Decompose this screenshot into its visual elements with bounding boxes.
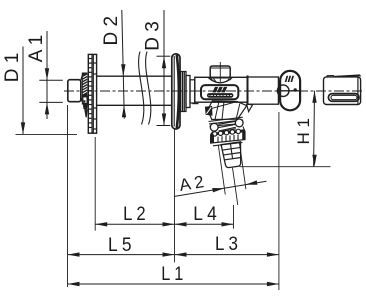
dimension D1 xyxy=(22,47,24,135)
knurled nut top band xyxy=(211,131,245,135)
outlet collar band xyxy=(218,121,236,131)
ext line D1 bottom xyxy=(16,133,78,135)
outlet funnel xyxy=(208,101,247,120)
ext line outlet axis xyxy=(233,205,235,229)
dimension L4 xyxy=(175,223,234,225)
ext line right end xyxy=(278,112,280,290)
hose nipple xyxy=(221,142,244,168)
svg-text:L 5: L 5 xyxy=(108,234,132,256)
outlet ribbed neck xyxy=(209,117,244,126)
svg-text:D 3: D 3 xyxy=(143,21,164,51)
outlet right wing xyxy=(247,104,253,111)
outlet collar ball right xyxy=(235,119,243,127)
dimension extension lines vertical xyxy=(68,105,279,290)
handle pin dot xyxy=(294,88,297,91)
bonnet cap xyxy=(210,66,230,78)
key top bevel xyxy=(327,75,360,77)
dimension L3 xyxy=(175,254,279,256)
wall rosette xyxy=(172,54,180,129)
inlet thread teeth band xyxy=(82,73,88,97)
svg-text:A 1: A 1 xyxy=(26,35,47,62)
handle split line xyxy=(280,90,300,92)
dimension A1 xyxy=(39,31,63,119)
ext line wall face xyxy=(174,129,176,263)
inlet cap xyxy=(68,80,81,102)
inlet lower wedge xyxy=(83,104,88,109)
wall anchor threaded flange xyxy=(88,54,96,133)
key slot outer xyxy=(328,94,359,102)
ext line H1 bottom xyxy=(240,166,331,168)
body foot step xyxy=(192,103,198,105)
dimension L5 xyxy=(68,254,175,256)
inlet lower tail xyxy=(84,109,87,117)
inlet seat window xyxy=(83,97,88,104)
bonnet centerline xyxy=(219,62,221,82)
outlet collar ball left xyxy=(210,123,218,131)
svg-text:A 2: A 2 xyxy=(178,172,205,195)
loose key body xyxy=(324,77,361,105)
knurled nut knurl lines xyxy=(218,135,238,143)
svg-text:L 1: L 1 xyxy=(161,263,183,285)
key slot inner xyxy=(331,95,357,99)
svg-text:L 2: L 2 xyxy=(123,203,146,225)
key inner edge xyxy=(357,78,359,104)
nut lower washer xyxy=(213,143,243,146)
knurled nut end caps xyxy=(211,135,214,144)
svg-text:D 1: D 1 xyxy=(2,53,23,83)
outlet left wedge xyxy=(205,106,213,116)
outlet cylinder section xyxy=(211,127,245,136)
outlet thread silhouette extension lines xyxy=(218,142,248,207)
body neck xyxy=(190,80,195,103)
outlet funnel creases xyxy=(209,101,240,120)
centerline main axis xyxy=(64,90,363,92)
knurled nut bumps xyxy=(213,129,241,136)
pipe break symbol xyxy=(139,52,151,125)
ext line pipe start xyxy=(94,137,96,231)
knurled nut body xyxy=(211,131,245,143)
pipe tube xyxy=(97,76,172,105)
svg-text:L 4: L 4 xyxy=(193,203,217,225)
dimension D2 xyxy=(122,10,125,119)
valve body xyxy=(195,77,248,102)
ext line left end xyxy=(67,105,69,287)
handle logo xyxy=(285,76,294,82)
dimension A2 xyxy=(175,181,267,196)
dimension L1 xyxy=(68,283,279,285)
svg-text:H 1: H 1 xyxy=(294,118,313,144)
svg-text:L 3: L 3 xyxy=(215,233,238,255)
dimension D3 xyxy=(157,10,171,126)
body rear section xyxy=(248,77,279,104)
dimension L2 xyxy=(95,223,174,225)
dimension H1 xyxy=(313,91,316,167)
handle oval xyxy=(280,71,300,110)
rosette collar 2 xyxy=(186,76,190,108)
label dark band xyxy=(207,93,233,98)
handle stem arc xyxy=(277,85,289,97)
svg-text:D 2: D 2 xyxy=(101,16,122,46)
label logo slashes xyxy=(212,87,227,93)
outlet lower group rotated xyxy=(218,141,249,206)
inlet thread cone shoulder xyxy=(81,73,83,80)
label plate xyxy=(201,85,238,99)
body flange line xyxy=(247,75,249,103)
bonnet dome xyxy=(208,77,232,82)
rosette collar 1 xyxy=(181,72,186,112)
